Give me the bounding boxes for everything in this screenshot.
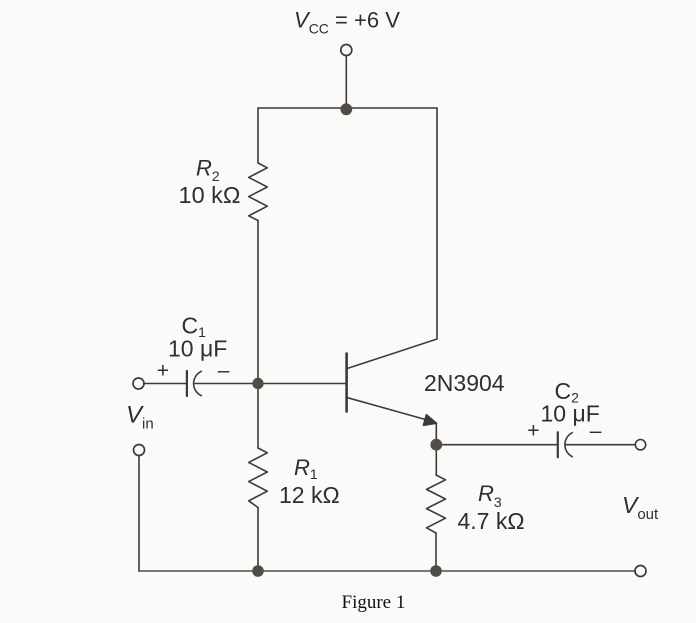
svg-text:10 μF: 10 μF <box>168 336 227 362</box>
wire emitter corner <box>435 423 437 445</box>
node junction Vcc rail <box>340 103 352 115</box>
node Vin terminal <box>133 378 144 389</box>
wire R3 bottom <box>435 533 437 571</box>
svg-text:Figure 1: Figure 1 <box>342 592 406 613</box>
svg-text:Vin: Vin <box>126 402 154 433</box>
node junction base <box>252 378 263 389</box>
svg-text:Vout: Vout <box>622 492 659 523</box>
node output ground terminal <box>635 566 646 577</box>
svg-text:12 kΩ: 12 kΩ <box>279 482 340 508</box>
wire R3 top <box>435 445 437 475</box>
svg-text:R1: R1 <box>294 455 318 482</box>
node Vout terminal <box>635 440 645 450</box>
svg-text:10 kΩ: 10 kΩ <box>179 182 241 208</box>
node junction ground left <box>252 565 264 577</box>
wire output right <box>566 444 635 446</box>
capacitor C2 <box>557 432 559 457</box>
svg-text:R3: R3 <box>478 481 502 510</box>
transistor Q1 collector lead <box>348 108 437 368</box>
node junction emitter <box>430 439 442 451</box>
svg-text:+: + <box>527 420 539 443</box>
wire bottom rail <box>139 570 635 572</box>
wire output left <box>436 444 558 446</box>
resistor R2 <box>249 163 268 221</box>
capacitor C1 <box>186 371 188 396</box>
svg-text:4.7 kΩ: 4.7 kΩ <box>458 508 525 534</box>
node Vin lower terminal <box>134 445 145 456</box>
wire Vin down <box>138 455 140 571</box>
wire left upper <box>257 108 259 163</box>
transistor Q1 emitter arrow <box>423 415 436 426</box>
svg-text:+: + <box>157 359 169 382</box>
svg-text:VCC = +6 V: VCC = +6 V <box>294 8 400 37</box>
wire left lower <box>257 508 259 572</box>
node Vcc terminal <box>341 45 352 56</box>
resistor R3 <box>427 475 446 533</box>
wire top rail <box>258 107 437 109</box>
wire base <box>195 383 346 385</box>
svg-text:–: – <box>218 359 230 382</box>
wire Vcc stub <box>345 55 347 108</box>
transistor Q1 base bar <box>345 354 348 412</box>
node junction ground right <box>430 565 442 577</box>
resistor R1 <box>249 448 268 508</box>
wire left middle <box>257 221 259 449</box>
svg-text:–: – <box>590 420 602 443</box>
wire input <box>144 383 187 385</box>
transistor Q1 emitter lead <box>348 398 433 422</box>
svg-text:2N3904: 2N3904 <box>424 370 505 396</box>
svg-text:R2: R2 <box>196 156 220 185</box>
